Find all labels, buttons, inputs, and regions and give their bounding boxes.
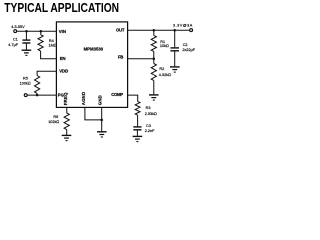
ground (R6) [62, 134, 72, 136]
resistor R4 [40, 31, 42, 35]
svg-text:MPM3530: MPM3530 [84, 47, 104, 52]
input terminal 4.5-55V [14, 30, 17, 33]
svg-text:C1: C1 [13, 38, 18, 42]
svg-text:R5: R5 [23, 77, 28, 81]
node R1 junction [153, 29, 156, 32]
PG terminal [24, 94, 27, 97]
resistor R5 [37, 71, 56, 75]
svg-text:COMP: COMP [111, 92, 123, 97]
node FB junction [153, 57, 156, 60]
node C2 junction [173, 29, 176, 32]
svg-text:100kΩ: 100kΩ [20, 82, 31, 86]
svg-text:4.5-55V: 4.5-55V [11, 25, 25, 29]
svg-text:R2: R2 [159, 67, 164, 71]
svg-text:FB: FB [118, 55, 123, 60]
node R5/PG junction [36, 94, 39, 97]
svg-text:102kΩ: 102kΩ [48, 120, 59, 124]
svg-text:C2: C2 [183, 43, 188, 47]
wire AGND [85, 108, 102, 120]
resistor R6 on FREQ [66, 108, 68, 114]
wire FB [128, 58, 154, 60]
output terminal 3.3V@3A [190, 29, 193, 32]
resistor R3 [135, 101, 140, 115]
svg-text:4.7µF: 4.7µF [8, 43, 18, 47]
svg-text:GND: GND [98, 95, 103, 105]
ground (C3) [133, 135, 143, 137]
svg-text:TYPICAL APPLICATION: TYPICAL APPLICATION [4, 2, 119, 15]
ground (C1) [22, 49, 32, 51]
capacitor C1 [25, 31, 27, 39]
IC U1 MPM3530 box [56, 22, 127, 108]
resistor R1 [153, 30, 155, 35]
svg-text:EN: EN [60, 56, 66, 61]
svg-text:2.2nF: 2.2nF [145, 129, 155, 133]
wire OUT rail [128, 29, 190, 31]
svg-text:VIN: VIN [59, 29, 66, 34]
svg-text:C3: C3 [146, 124, 151, 128]
capacitor C3 [133, 126, 141, 128]
svg-text:OUT: OUT [116, 28, 125, 33]
svg-text:2x22µF: 2x22µF [182, 48, 195, 52]
node C1 junction [25, 30, 28, 33]
node AGND/GND junction [100, 119, 103, 122]
capacitor C2 [174, 30, 176, 47]
svg-text:10kΩ: 10kΩ [160, 44, 169, 48]
svg-text:R3: R3 [146, 106, 151, 110]
svg-text:R6: R6 [53, 115, 58, 119]
wire PG [27, 94, 56, 96]
wire VIN input rail [17, 30, 57, 32]
ground (C2) [170, 66, 180, 68]
wire COMP [128, 95, 138, 101]
svg-text:VDD: VDD [59, 69, 68, 74]
svg-text:FREQ: FREQ [63, 92, 68, 105]
ground (GND) [97, 131, 107, 133]
node R4 junction [40, 30, 43, 33]
svg-text:3.3V@3A: 3.3V@3A [173, 24, 193, 28]
svg-text:1MΩ: 1MΩ [49, 43, 57, 47]
svg-text:AGND: AGND [81, 92, 86, 105]
svg-text:2.53kΩ: 2.53kΩ [145, 112, 157, 116]
svg-text:4.32kΩ: 4.32kΩ [159, 73, 171, 77]
resistor R2 [153, 59, 155, 64]
ground (R2) [149, 94, 159, 96]
wire GND [101, 108, 103, 132]
